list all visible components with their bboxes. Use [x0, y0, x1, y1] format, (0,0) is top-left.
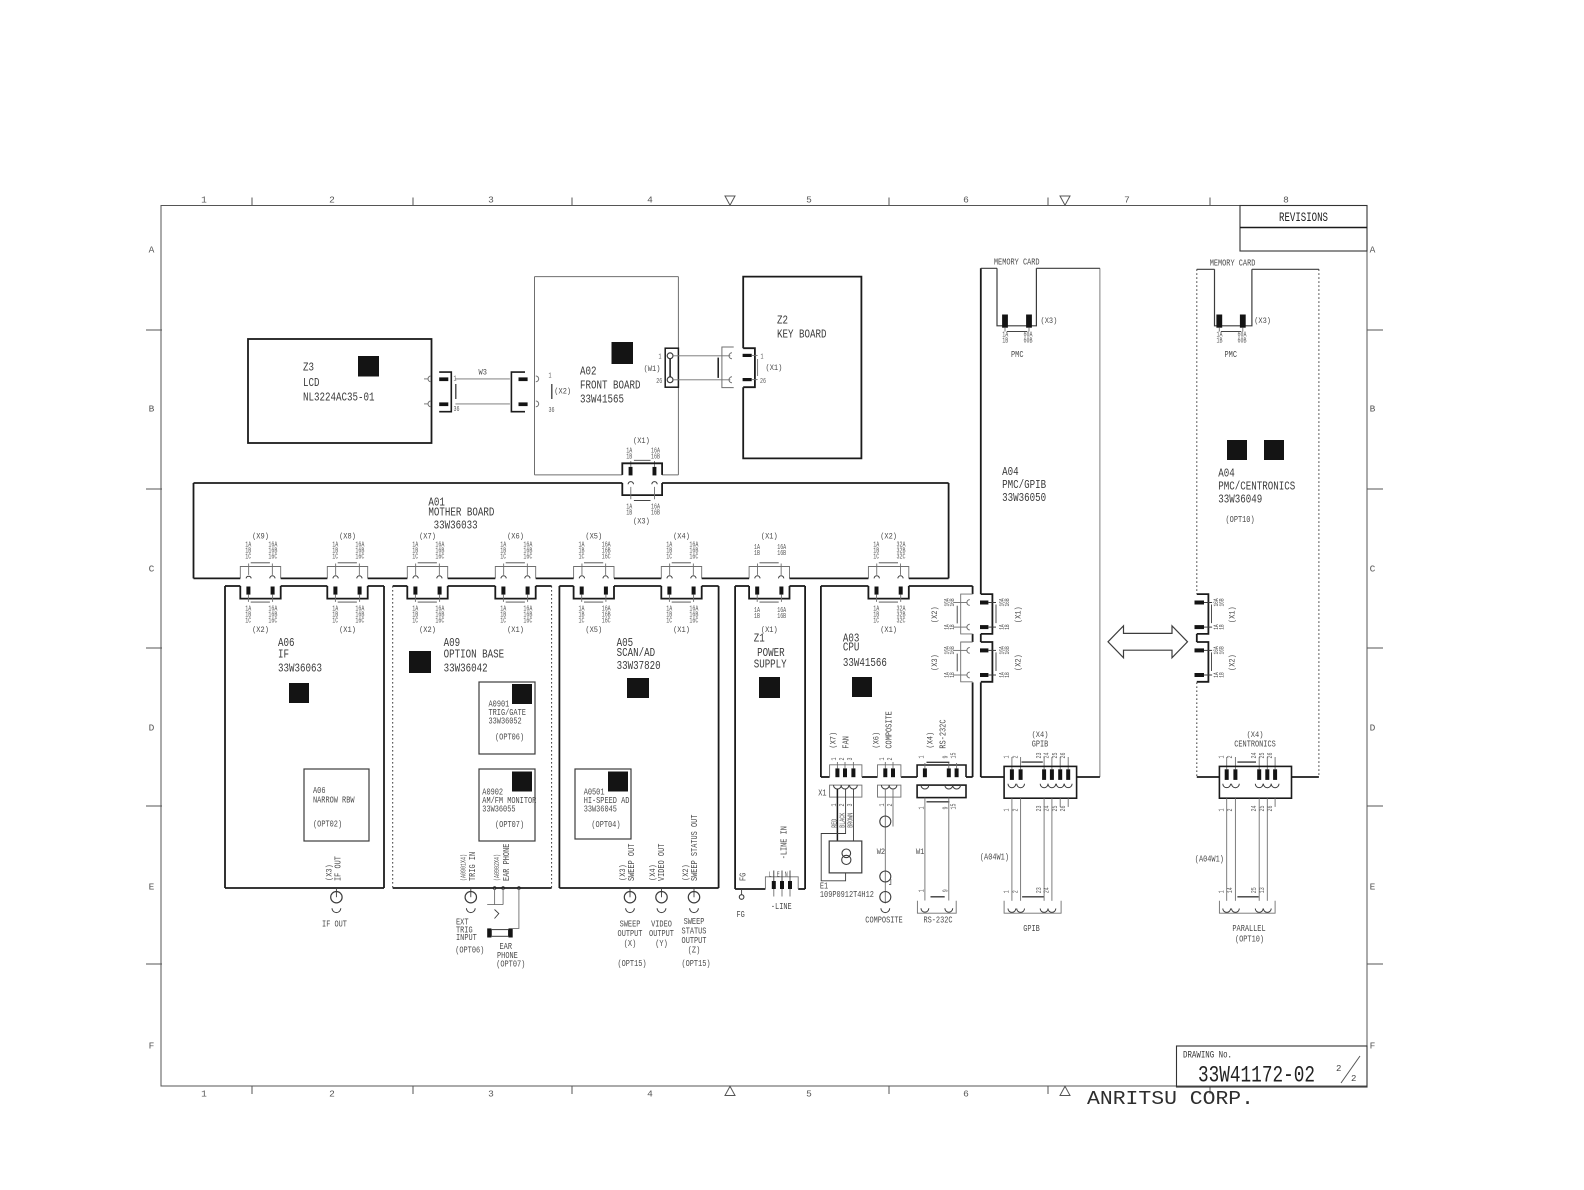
- key board plug: [722, 347, 734, 388]
- connector (X2) sockets on front board edge: [536, 376, 539, 382]
- Z3 LCD black chip: [358, 356, 379, 377]
- svg-text:1: 1: [1004, 756, 1012, 759]
- svg-text:FRONT BOARD: FRONT BOARD: [580, 379, 641, 393]
- svg-text:-LINE IN: -LINE IN: [780, 826, 790, 859]
- svg-text:(X1): (X1): [766, 363, 783, 373]
- svg-text:24: 24: [1251, 806, 1259, 812]
- FG terminal: [741, 889, 743, 895]
- svg-text:(X2): (X2): [1228, 654, 1238, 671]
- option module A0501 HI-SPEED AD: [575, 769, 631, 839]
- svg-text:8: 8: [1283, 195, 1289, 206]
- svg-text:16C: 16C: [523, 617, 532, 625]
- svg-text:(X1): (X1): [761, 532, 778, 542]
- svg-text:(X8): (X8): [339, 532, 356, 542]
- svg-text:16C: 16C: [689, 554, 698, 562]
- svg-text:25: 25: [1052, 753, 1060, 759]
- svg-text:(X1): (X1): [673, 625, 690, 635]
- svg-text:9: 9: [942, 889, 950, 892]
- svg-text:1B: 1B: [1217, 338, 1223, 346]
- ear phone jack symbol: [487, 928, 491, 937]
- svg-text:Z3: Z3: [303, 361, 314, 375]
- svg-text:32C: 32C: [897, 617, 906, 625]
- svg-text:X1: X1: [818, 789, 826, 799]
- svg-text:2: 2: [1227, 809, 1235, 812]
- connector VIDEO OUTPUT (Y): [661, 888, 663, 897]
- svg-text:16C: 16C: [602, 554, 611, 562]
- svg-text:109P0912T4H12: 109P0912T4H12: [820, 890, 874, 900]
- svg-text:2: 2: [1012, 890, 1020, 893]
- svg-text:(X1): (X1): [633, 436, 650, 446]
- svg-text:1: 1: [1004, 890, 1012, 893]
- svg-text:(X4): (X4): [926, 732, 936, 749]
- svg-text:1B: 1B: [626, 510, 632, 518]
- svg-text:(X5): (X5): [585, 625, 602, 635]
- board Z1 POWER SUPPLY outline: [735, 585, 749, 587]
- CENTRONICS cable A04W1: [1226, 798, 1228, 901]
- svg-text:(X3): (X3): [930, 654, 940, 671]
- svg-text:RS-232C: RS-232C: [939, 720, 949, 749]
- svg-text:IF OUT: IF OUT: [334, 856, 344, 881]
- svg-text:Z2: Z2: [777, 314, 788, 328]
- svg-text:PARALLEL: PARALLEL: [1232, 924, 1265, 934]
- svg-text:23: 23: [1036, 753, 1044, 759]
- svg-text:26: 26: [1060, 753, 1068, 759]
- GPIB cable A04W1: [1011, 798, 1013, 901]
- svg-text:1C: 1C: [873, 554, 879, 562]
- svg-text:23: 23: [1036, 806, 1044, 812]
- svg-text:15: 15: [950, 753, 958, 759]
- connector EXT TRIG INPUT: [470, 888, 472, 897]
- svg-text:(X1): (X1): [339, 625, 356, 635]
- svg-text:1C: 1C: [245, 554, 251, 562]
- svg-text:L: L: [769, 872, 772, 880]
- svg-text:16B: 16B: [949, 598, 956, 606]
- connector SWEEP OUTPUT (X): [629, 888, 631, 897]
- svg-text:16C: 16C: [355, 617, 364, 625]
- svg-text:1B: 1B: [1004, 624, 1011, 630]
- W3 cable plug right: [511, 372, 525, 412]
- svg-text:FG: FG: [737, 910, 745, 920]
- svg-text:FAN: FAN: [842, 736, 852, 749]
- svg-text:1C: 1C: [412, 617, 418, 625]
- svg-text:LCD: LCD: [303, 376, 320, 390]
- A06 black chip: [289, 683, 309, 703]
- svg-text:4: 4: [647, 1089, 653, 1100]
- svg-text:GPIB: GPIB: [1023, 924, 1040, 934]
- svg-text:(X4): (X4): [1247, 730, 1264, 740]
- svg-text:2: 2: [887, 758, 895, 761]
- external RS-232C connector: [917, 785, 966, 798]
- option module A06 NARROW RBW: [304, 769, 369, 841]
- svg-text:B: B: [149, 404, 155, 415]
- ruler ticks and zone numbers: [251, 198, 253, 206]
- svg-text:33W41566: 33W41566: [843, 656, 887, 670]
- svg-text:(Z): (Z): [688, 946, 701, 956]
- svg-text:F: F: [1370, 1041, 1376, 1052]
- mother board bus line segments: [194, 577, 241, 579]
- svg-text:RED: RED: [831, 819, 839, 828]
- svg-text:(X2): (X2): [880, 532, 897, 542]
- external composite connector: [878, 785, 901, 797]
- svg-text:1: 1: [1219, 890, 1227, 893]
- svg-text:3: 3: [847, 758, 855, 761]
- svg-text:(OPT07): (OPT07): [495, 820, 524, 830]
- svg-text:(Y): (Y): [655, 939, 668, 949]
- svg-text:(OPT10): (OPT10): [1235, 935, 1264, 945]
- svg-text:(OPT10): (OPT10): [1226, 515, 1255, 525]
- svg-text:SWEEP: SWEEP: [684, 917, 705, 927]
- svg-text:1C: 1C: [412, 554, 418, 562]
- svg-text:EAR PHONE: EAR PHONE: [502, 844, 512, 881]
- svg-text:9: 9: [943, 807, 951, 810]
- svg-text:2: 2: [839, 758, 847, 761]
- CPU side connector (X3) to PMC (X2): [961, 642, 973, 682]
- A04 PMC/CENTRONICS black chips: [1227, 440, 1247, 460]
- svg-text:1: 1: [201, 195, 207, 206]
- svg-text:24: 24: [1044, 806, 1052, 812]
- svg-text:24: 24: [1044, 887, 1052, 893]
- svg-text:1C: 1C: [579, 554, 585, 562]
- svg-text:16B: 16B: [651, 454, 660, 462]
- connector IF OUT: [335, 888, 337, 897]
- board A04 PMC/GPIB outline: [980, 268, 982, 594]
- board A06 IF outline: [225, 585, 240, 587]
- svg-text:23: 23: [1036, 887, 1044, 893]
- PMC/CENTRONICS side connector (X1): [1197, 594, 1209, 634]
- svg-text:OUTPUT: OUTPUT: [682, 936, 707, 946]
- svg-text:1C: 1C: [873, 617, 879, 625]
- svg-text:B: B: [1370, 404, 1376, 415]
- svg-text:1C: 1C: [666, 617, 672, 625]
- option module A0901 TRIG/GATE: [479, 682, 535, 754]
- svg-text:(OPT15): (OPT15): [617, 959, 646, 969]
- svg-text:TRIG IN: TRIG IN: [468, 852, 478, 881]
- ear phone jack wiring: [493, 886, 497, 890]
- svg-text:(X2): (X2): [419, 625, 436, 635]
- board A04 PMC/CENTRONICS outline: [1196, 269, 1198, 594]
- svg-text:16C: 16C: [689, 617, 698, 625]
- svg-text:33W41172-02: 33W41172-02: [1198, 1063, 1315, 1089]
- svg-text:33W36042: 33W36042: [444, 662, 488, 676]
- svg-text:16B: 16B: [1004, 598, 1011, 606]
- svg-text:2: 2: [1227, 756, 1235, 759]
- svg-text:32C: 32C: [897, 554, 906, 562]
- svg-text:A04: A04: [1218, 467, 1235, 481]
- sheet border frame: [161, 206, 1367, 1087]
- svg-text:(X9): (X9): [252, 532, 269, 542]
- row boundary ticks: [146, 329, 162, 331]
- svg-text:16B: 16B: [777, 613, 786, 621]
- svg-text:26: 26: [760, 378, 766, 386]
- svg-text:CPU: CPU: [843, 641, 860, 655]
- connector sockets on LCD edge: [428, 376, 431, 382]
- svg-text:26: 26: [1267, 753, 1275, 759]
- svg-text:1B: 1B: [949, 672, 956, 678]
- svg-text:33W36052: 33W36052: [489, 717, 522, 727]
- svg-text:16C: 16C: [268, 554, 277, 562]
- wire W2 composite chain: [884, 789, 886, 904]
- svg-text:IF: IF: [278, 648, 289, 662]
- svg-text:1B: 1B: [754, 613, 760, 621]
- svg-text:E: E: [149, 882, 155, 893]
- svg-text:3: 3: [488, 1089, 494, 1100]
- svg-text:33W36049: 33W36049: [1218, 493, 1262, 507]
- svg-text:COMPOSITE: COMPOSITE: [885, 711, 895, 748]
- svg-text:A: A: [149, 245, 155, 256]
- svg-text:(OPT06): (OPT06): [455, 945, 484, 955]
- svg-text:BROWN: BROWN: [847, 813, 855, 828]
- svg-text:33W36055: 33W36055: [482, 805, 515, 815]
- svg-text:2: 2: [1012, 756, 1020, 759]
- bus expansion double arrow: [1108, 626, 1188, 658]
- svg-text:26: 26: [656, 378, 662, 386]
- title block DRAWING No. box: [1177, 1046, 1368, 1087]
- svg-text:1: 1: [1004, 809, 1012, 812]
- svg-text:(X4): (X4): [1032, 730, 1049, 740]
- svg-text:SCAN/AD: SCAN/AD: [617, 646, 656, 660]
- board A05 SCAN/AD outline: [559, 585, 573, 587]
- svg-text:OUTPUT: OUTPUT: [618, 929, 643, 939]
- board A03 CPU outline: [821, 585, 869, 587]
- svg-text:2: 2: [1336, 1064, 1341, 1074]
- svg-text:E: E: [1370, 882, 1376, 893]
- svg-text:1B: 1B: [1219, 672, 1226, 678]
- svg-text:16B: 16B: [949, 646, 956, 654]
- svg-text:(X1): (X1): [1014, 606, 1024, 623]
- svg-text:(X6): (X6): [872, 732, 882, 749]
- svg-text:(X6): (X6): [507, 532, 524, 542]
- svg-text:SWEEP STATUS OUT: SWEEP STATUS OUT: [690, 815, 700, 881]
- svg-text:1: 1: [761, 353, 764, 361]
- svg-text:(X4): (X4): [673, 532, 690, 542]
- svg-text:VIDEO OUT: VIDEO OUT: [657, 844, 667, 881]
- svg-text:MEMORY CARD: MEMORY CARD: [994, 257, 1040, 267]
- svg-text:2: 2: [329, 1089, 335, 1100]
- svg-text:C: C: [1370, 564, 1376, 575]
- svg-text:IF OUT: IF OUT: [322, 920, 347, 930]
- svg-text:16B: 16B: [1004, 646, 1011, 654]
- svg-text:1C: 1C: [332, 554, 338, 562]
- svg-text:33W36033: 33W36033: [434, 518, 478, 532]
- svg-text:16B: 16B: [651, 510, 660, 518]
- A05 black chip: [627, 678, 649, 698]
- svg-text:NARROW RBW: NARROW RBW: [313, 795, 355, 805]
- svg-text:CENTRONICS: CENTRONICS: [1234, 740, 1276, 750]
- svg-text:RS-232C: RS-232C: [923, 916, 952, 926]
- svg-text:1C: 1C: [332, 617, 338, 625]
- key board connector (X1) bump: [743, 348, 755, 387]
- svg-text:2: 2: [887, 804, 895, 807]
- board Z2 KEY BOARD: [743, 277, 861, 459]
- svg-text:(X1): (X1): [1228, 606, 1238, 623]
- svg-text:1C: 1C: [245, 617, 251, 625]
- Z1 black chip: [759, 677, 780, 698]
- svg-text:(OPT06): (OPT06): [495, 732, 524, 742]
- svg-text:1B: 1B: [949, 624, 956, 630]
- W3 cable plug left: [439, 372, 451, 412]
- svg-text:1C: 1C: [579, 617, 585, 625]
- svg-text:A02: A02: [580, 365, 597, 379]
- svg-text:(X3): (X3): [633, 516, 650, 526]
- svg-text:7: 7: [1124, 195, 1130, 206]
- svg-text:REVISIONS: REVISIONS: [1279, 210, 1328, 225]
- svg-text:14: 14: [1227, 887, 1235, 893]
- svg-text:MEMORY CARD: MEMORY CARD: [1210, 258, 1256, 268]
- svg-text:N: N: [785, 872, 788, 880]
- svg-text:STATUS: STATUS: [682, 927, 707, 937]
- svg-text:(A04W1): (A04W1): [980, 853, 1009, 863]
- wire W1 RS-232C cable: [924, 798, 926, 901]
- svg-text:9: 9: [943, 756, 951, 759]
- svg-text:26: 26: [1060, 806, 1068, 812]
- svg-text:16C: 16C: [268, 617, 277, 625]
- svg-text:25: 25: [1259, 753, 1267, 759]
- line input connector L E N: [765, 877, 798, 889]
- svg-text:5: 5: [806, 1089, 812, 1100]
- wire W1 keyboard link: [673, 355, 730, 357]
- svg-text:ANRITSU CORP.: ANRITSU CORP.: [1087, 1088, 1254, 1110]
- connector SWEEP STATUS OUTPUT (Z): [693, 888, 695, 897]
- svg-text:2: 2: [1012, 809, 1020, 812]
- svg-text:(X5): (X5): [585, 532, 602, 542]
- svg-text:1B: 1B: [1004, 672, 1011, 678]
- svg-text:(OPT07): (OPT07): [496, 960, 525, 970]
- svg-text:1: 1: [919, 756, 927, 759]
- svg-text:C: C: [149, 564, 155, 575]
- svg-text:1C: 1C: [500, 617, 506, 625]
- svg-text:FG: FG: [739, 873, 749, 881]
- svg-text:(OPT15): (OPT15): [681, 959, 710, 969]
- A02 black chip: [612, 342, 634, 364]
- svg-text:60B: 60B: [1024, 338, 1033, 346]
- svg-text:1B: 1B: [1002, 338, 1008, 346]
- connector (X3) memory card PMC/CENTRONICS: [1216, 315, 1222, 328]
- svg-text:1: 1: [1219, 809, 1227, 812]
- CPU side connector (X2) to PMC (X1): [961, 594, 973, 634]
- svg-text:OUTPUT: OUTPUT: [649, 929, 674, 939]
- svg-text:(A04W1): (A04W1): [1195, 855, 1224, 865]
- svg-text:16C: 16C: [435, 554, 444, 562]
- svg-text:-LINE: -LINE: [771, 902, 792, 912]
- svg-text:16B: 16B: [777, 550, 786, 558]
- svg-text:16B: 16B: [1219, 598, 1226, 606]
- svg-text:(X1): (X1): [507, 625, 524, 635]
- wire W3: [455, 378, 510, 380]
- svg-text:33W37820: 33W37820: [617, 659, 661, 673]
- connector (X3) memory card PMC/GPIB: [1002, 315, 1008, 328]
- svg-text:2: 2: [1351, 1074, 1356, 1084]
- svg-text:NL3224AC35-01: NL3224AC35-01: [303, 391, 375, 405]
- svg-text:COMPOSITE: COMPOSITE: [865, 916, 902, 926]
- svg-text:(OPT04): (OPT04): [591, 820, 620, 830]
- svg-text:(X): (X): [624, 939, 637, 949]
- svg-text:(OPT02): (OPT02): [313, 820, 342, 830]
- board A09 OPTION BASE outline: [393, 585, 408, 587]
- svg-text:33W41565: 33W41565: [580, 393, 624, 407]
- svg-text:(X3): (X3): [1254, 316, 1271, 326]
- svg-text:KEY BOARD: KEY BOARD: [777, 328, 827, 342]
- svg-text:16C: 16C: [602, 617, 611, 625]
- svg-text:1B: 1B: [626, 454, 632, 462]
- svg-text:(X3): (X3): [1041, 316, 1058, 326]
- svg-text:1: 1: [919, 807, 927, 810]
- svg-text:1: 1: [919, 889, 927, 892]
- svg-text:1: 1: [659, 353, 662, 361]
- svg-text:60B: 60B: [1238, 338, 1247, 346]
- svg-text:PMC/CENTRONICS: PMC/CENTRONICS: [1218, 480, 1295, 494]
- svg-text:(W1): (W1): [644, 364, 661, 374]
- REVISIONS table: [1240, 206, 1367, 252]
- svg-text:25: 25: [1259, 806, 1267, 812]
- svg-text:E: E: [777, 872, 780, 880]
- svg-text:25: 25: [1052, 806, 1060, 812]
- option module A0902 AM/FM MONITOR: [479, 769, 535, 841]
- fan E1 box: [829, 841, 862, 873]
- board A02 FRONT BOARD: [535, 276, 679, 278]
- svg-text:1C: 1C: [666, 554, 672, 562]
- svg-text:13: 13: [1259, 887, 1267, 893]
- svg-text:1: 1: [201, 1089, 207, 1100]
- svg-text:A: A: [1370, 245, 1376, 256]
- connector (X3) mother board top: [622, 483, 662, 495]
- A03 black chip: [852, 677, 872, 697]
- PMC/CENTRONICS side connector (X2): [1197, 642, 1209, 682]
- board A01 MOTHER BOARD outline: [193, 483, 195, 578]
- svg-text:4: 4: [647, 195, 653, 206]
- svg-text:6: 6: [963, 1089, 969, 1100]
- fan wires RED BLACK BROWN: [836, 789, 838, 841]
- svg-text:24: 24: [1044, 753, 1052, 759]
- svg-text:(X1): (X1): [880, 625, 897, 635]
- svg-text:1B: 1B: [1219, 624, 1226, 630]
- svg-text:16C: 16C: [355, 554, 364, 562]
- svg-text:A04: A04: [1002, 465, 1019, 479]
- svg-text:1: 1: [1219, 756, 1227, 759]
- svg-text:26: 26: [1267, 806, 1275, 812]
- fold mark triangles: [725, 196, 735, 205]
- svg-text:BLACK: BLACK: [839, 812, 847, 828]
- svg-text:D: D: [149, 723, 155, 734]
- svg-text:VIDEO: VIDEO: [651, 919, 672, 929]
- connector (W1) on front board edge: [665, 348, 678, 387]
- external fan connector X1: [830, 785, 862, 797]
- svg-text:1C: 1C: [500, 554, 506, 562]
- svg-text:1B: 1B: [754, 550, 760, 558]
- svg-text:PMC: PMC: [1011, 350, 1024, 360]
- svg-text:5: 5: [806, 195, 812, 206]
- svg-text:25: 25: [1251, 887, 1259, 893]
- svg-text:F: F: [149, 1041, 155, 1052]
- svg-text:6: 6: [963, 195, 969, 206]
- svg-text:33W36045: 33W36045: [584, 805, 617, 815]
- svg-text:(A0902X4): (A0902X4): [494, 854, 502, 881]
- svg-text:W1: W1: [916, 848, 924, 857]
- svg-text:33W36050: 33W36050: [1002, 491, 1046, 505]
- svg-text:(X2): (X2): [1014, 654, 1024, 671]
- svg-text:3: 3: [488, 195, 494, 206]
- svg-text:(X7): (X7): [829, 732, 839, 749]
- svg-text:16C: 16C: [435, 617, 444, 625]
- svg-text:SUPPLY: SUPPLY: [754, 658, 787, 672]
- svg-text:36: 36: [549, 407, 555, 415]
- svg-text:33W36063: 33W36063: [278, 662, 322, 676]
- svg-text:3: 3: [847, 804, 855, 807]
- svg-text:OPTION BASE: OPTION BASE: [444, 648, 505, 662]
- svg-text:SWEEP: SWEEP: [620, 919, 641, 929]
- svg-text:2: 2: [329, 195, 335, 206]
- svg-text:W2: W2: [877, 848, 885, 857]
- board Z3 LCD: [248, 339, 432, 443]
